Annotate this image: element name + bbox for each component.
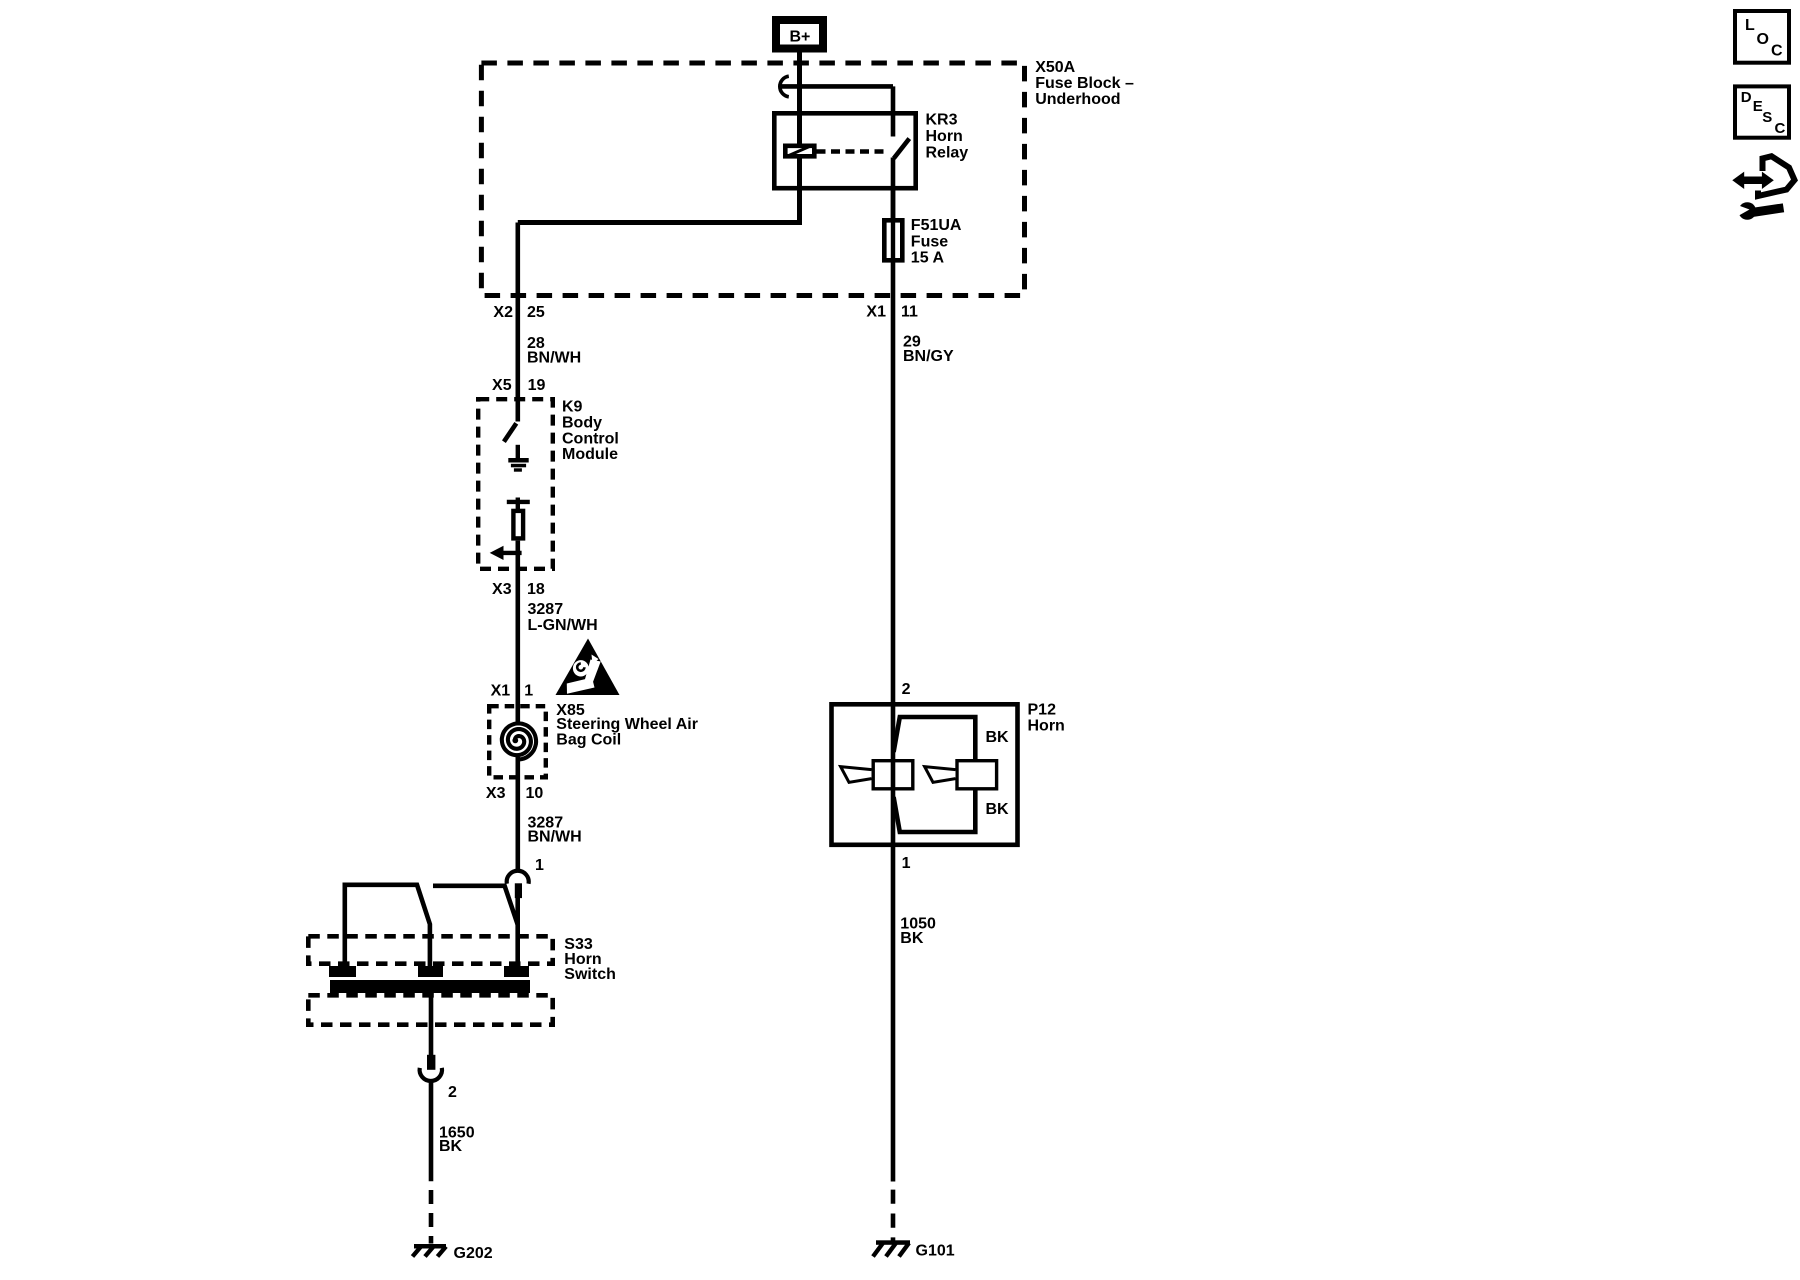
svg-text:2: 2 <box>902 681 911 698</box>
svg-text:X1: X1 <box>866 303 886 320</box>
svg-text:19: 19 <box>528 377 546 394</box>
svg-text:18: 18 <box>527 581 545 598</box>
svg-text:2: 2 <box>448 1084 457 1101</box>
svg-text:B+: B+ <box>790 29 811 46</box>
svg-text:X3: X3 <box>492 581 512 598</box>
svg-text:Control: Control <box>562 430 619 447</box>
svg-text:G101: G101 <box>916 1242 955 1259</box>
svg-text:Horn: Horn <box>926 128 963 145</box>
svg-text:10: 10 <box>526 785 544 802</box>
svg-text:O: O <box>1757 31 1769 48</box>
svg-text:X50A: X50A <box>1035 59 1075 76</box>
svg-text:Fuse: Fuse <box>911 233 948 250</box>
svg-text:BK: BK <box>900 930 924 947</box>
svg-text:L: L <box>1745 17 1755 34</box>
svg-text:K9: K9 <box>562 399 583 416</box>
svg-text:C: C <box>1771 43 1783 60</box>
svg-text:C: C <box>1775 120 1786 137</box>
svg-text:G202: G202 <box>454 1245 493 1262</box>
svg-text:Bag Coil: Bag Coil <box>556 731 621 748</box>
svg-text:P12: P12 <box>1028 702 1057 719</box>
svg-text:Switch: Switch <box>564 966 616 983</box>
svg-text:BK: BK <box>986 729 1010 746</box>
svg-text:BK: BK <box>986 801 1010 818</box>
svg-text:11: 11 <box>901 303 918 320</box>
svg-text:X3: X3 <box>486 785 506 802</box>
svg-text:Relay: Relay <box>926 145 969 162</box>
svg-text:1: 1 <box>902 855 911 872</box>
svg-text:1: 1 <box>535 857 544 874</box>
svg-text:X1: X1 <box>491 682 511 699</box>
svg-text:BN/WH: BN/WH <box>527 349 581 366</box>
svg-text:3287: 3287 <box>528 601 564 618</box>
svg-text:F51UA: F51UA <box>911 217 962 234</box>
svg-text:Horn: Horn <box>1028 717 1065 734</box>
svg-text:1: 1 <box>524 682 533 699</box>
svg-text:15 A: 15 A <box>911 250 945 267</box>
svg-text:25: 25 <box>527 304 545 321</box>
svg-text:Fuse Block –: Fuse Block – <box>1035 75 1134 92</box>
svg-text:Module: Module <box>562 446 618 463</box>
svg-text:L-GN/WH: L-GN/WH <box>528 617 598 634</box>
svg-text:BN/GY: BN/GY <box>903 348 954 365</box>
svg-text:BN/WH: BN/WH <box>528 829 582 846</box>
svg-text:X2: X2 <box>493 304 513 321</box>
svg-text:S: S <box>1762 109 1772 126</box>
svg-text:X5: X5 <box>492 377 512 394</box>
svg-text:BK: BK <box>439 1138 463 1155</box>
svg-text:Underhood: Underhood <box>1035 91 1120 108</box>
svg-text:Body: Body <box>562 414 602 431</box>
svg-text:D: D <box>1741 89 1752 106</box>
svg-text:KR3: KR3 <box>926 111 958 128</box>
